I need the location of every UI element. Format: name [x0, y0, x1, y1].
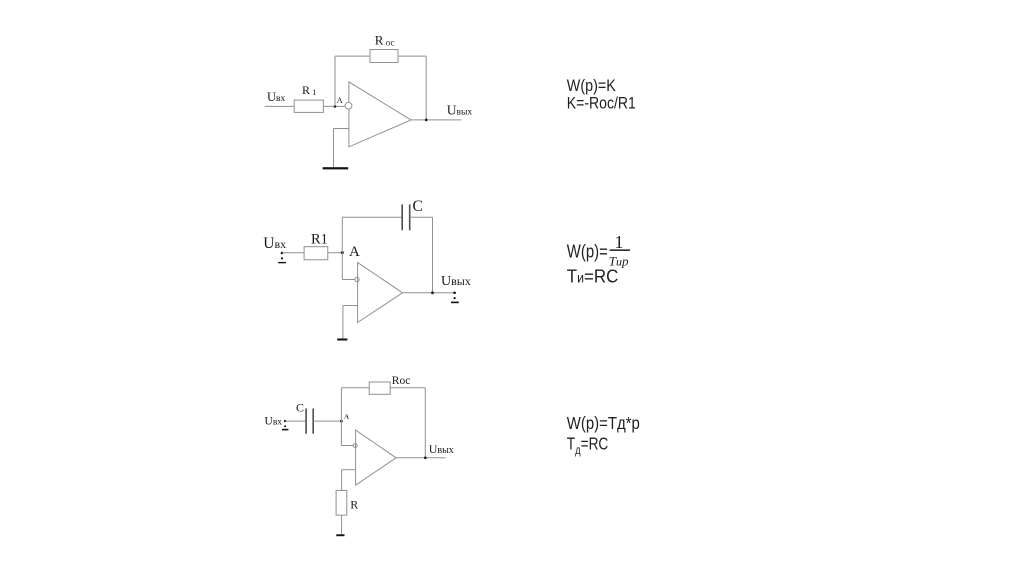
wire output circuit 2 [403, 292, 456, 294]
junction dot output circuit 3 [424, 457, 427, 460]
svg-text:Uвх: Uвх [263, 235, 286, 252]
input terminal ground bar circuit 2 [278, 262, 286, 263]
svg-text:W(p)=K: W(p)=K [567, 77, 616, 95]
wire feedback top right circuit 2 [410, 216, 433, 218]
wire non-inverting input circuit 1 [334, 128, 349, 130]
wire non-inverting input circuit 3 [342, 469, 356, 471]
inverting input circle circuit 2 [355, 277, 359, 281]
wire feedback vertical left circuit 1 [334, 56, 336, 106]
resistor Roc (circuit 1) [370, 50, 398, 63]
wire feedback vertical right circuit 3 [424, 388, 426, 458]
ground circuit 1 [323, 167, 349, 169]
wire feedback vertical right circuit 2 [432, 217, 434, 292]
inverting input circle circuit 3 [353, 444, 357, 448]
svg-text:A: A [337, 95, 344, 105]
svg-text:Uвх: Uвх [267, 90, 286, 104]
svg-text:R1: R1 [311, 231, 328, 247]
capacitor C circuit 2 [402, 204, 410, 230]
svg-text:Tи=RC: Tи=RC [567, 266, 619, 287]
wire feedback top left circuit 1 [335, 55, 370, 57]
svg-text:W(p)=: W(p)= [567, 241, 608, 262]
svg-text:Uвых: Uвых [447, 103, 473, 118]
wire feedback top left circuit 3 [341, 387, 369, 389]
wire inverting input circuit 2 [342, 279, 355, 281]
svg-text:Roc: Roc [392, 375, 411, 387]
node A junction dot circuit 3 [340, 420, 343, 423]
capacitor C circuit 3 [306, 409, 313, 434]
wire feedback top right circuit 1 [398, 55, 426, 57]
svg-text:Uвх: Uвх [265, 415, 283, 427]
svg-text:R ос: R ос [375, 33, 395, 48]
wire feedback top left circuit 2 [342, 216, 402, 218]
wire R to ground circuit 3 [341, 515, 343, 534]
node A junction dot circuit 2 [341, 251, 344, 254]
wire input circuit 3 [285, 420, 306, 422]
svg-text:K=-Roc/R1: K=-Roc/R1 [567, 95, 636, 113]
op-amp U1 triangle circuit 1 [349, 82, 411, 147]
formula fraction bar (block 2) [610, 249, 630, 251]
junction dot output circuit 1 [425, 119, 428, 122]
wire inverting input circuit 3 [341, 445, 353, 447]
resistor Roc circuit 3 [369, 382, 390, 394]
svg-text:Uвых: Uвых [429, 442, 454, 456]
wire output circuit 3 [396, 457, 446, 459]
output terminal dot circuit 2 [453, 292, 456, 295]
wire non-inverting to ground circuit 1 [333, 129, 335, 168]
svg-text:W(p)=Tд*p: W(p)=Tд*p [567, 413, 640, 433]
wire node A vertical circuit 3 [340, 388, 342, 446]
resistor R1 circuit 2 [304, 247, 328, 260]
node A junction dot circuit 1 [334, 105, 337, 108]
resistor R circuit 3 [336, 490, 347, 515]
svg-text:C: C [296, 401, 304, 415]
wire output circuit 1 [411, 119, 461, 121]
junction dot output circuit 2 [431, 291, 434, 294]
svg-text:C: C [413, 198, 423, 215]
svg-text:Tд=RC: Tд=RC [567, 434, 609, 458]
op-amp U3 triangle circuit 3 [356, 430, 396, 485]
wire input circuit 1 [265, 105, 295, 107]
wire C to node A circuit 3 [313, 420, 341, 422]
input terminal dot circuit 3 [284, 420, 286, 422]
wire non-inverting input circuit 2 [343, 305, 358, 307]
input terminal dot circuit 2 [281, 252, 284, 255]
inverting input circle circuit 1 [345, 102, 352, 109]
svg-text:1: 1 [615, 232, 624, 252]
svg-text:R 1: R 1 [302, 83, 316, 97]
input terminal lower dot circuit 2 [281, 257, 283, 259]
svg-text:A: A [349, 244, 360, 260]
input terminal lower dot circuit 3 [284, 425, 286, 427]
wire feedback vertical right circuit 1 [425, 56, 427, 120]
ground circuit 2 [337, 339, 347, 341]
ground circuit 3 [336, 534, 344, 536]
wire R1 to node A circuit 1 [323, 105, 345, 107]
wire R1 to node A circuit 2 [328, 252, 343, 254]
wire non-inverting to ground circuit 2 [342, 306, 344, 339]
svg-text:A: A [344, 413, 349, 420]
svg-text:Uвых: Uвых [441, 274, 471, 289]
svg-text:R: R [350, 498, 358, 512]
output terminal ground bar circuit 2 [451, 302, 459, 304]
op-amp U2 triangle circuit 2 [358, 262, 403, 322]
input terminal ground bar circuit 3 [282, 429, 288, 431]
wire non-inverting to resistor R circuit 3 [341, 470, 343, 491]
resistor R1 (circuit 1) [294, 100, 323, 112]
wire feedback top right circuit 3 [390, 387, 425, 389]
wire node A vertical circuit 2 [341, 217, 343, 279]
output terminal lower dot circuit 2 [454, 297, 456, 299]
wire input circuit 2 [282, 252, 304, 254]
